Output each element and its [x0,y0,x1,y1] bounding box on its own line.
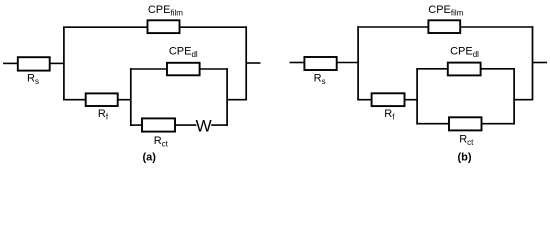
wire: top branch, CPEfilm to right junction (a) [180,26,248,28]
wire: inner top branch, CPEdl to inner-right junction (b) [481,68,515,70]
wire: inner top branch, junction to CPEdl (a) [130,68,167,70]
CPE CPEfilm (a) [148,20,180,33]
CPE CPEdl (b) [448,63,481,76]
wire: right parallel-junction vertical (a) [245,26,247,100]
resistor Rct (b) [449,117,482,130]
svg-text:(a): (a) [142,151,156,163]
wire: inner top branch, junction to CPEdl (b) [416,68,447,70]
wire Rs to left junction node (b) [337,62,358,64]
wire: inner block to right junction (b) [514,99,532,101]
resistor Rs (b) [304,57,336,70]
svg-text:CPEdl: CPEdl [450,45,479,59]
wire: Warburg W to inner-right junction (a) [211,124,228,126]
resistor Rf (b) [372,93,405,106]
wire: inner-left junction vertical (a) [130,68,132,126]
wire: left parallel-junction vertical (a) [63,26,65,100]
svg-text:Rf: Rf [98,108,109,122]
wire: inner-left junction vertical (b) [416,68,418,125]
wire: bottom branch, junction to Rf (a) [63,99,86,101]
wire: inner block to right junction (a) [227,99,246,101]
wire: top branch, CPEfilm to right junction (b) [460,26,533,28]
wire: inner-right junction vertical (a) [226,68,228,126]
wire: output terminal (a) [246,62,260,64]
wire: Rct to Warburg W (a) [175,124,196,126]
svg-text:Rf: Rf [384,108,395,122]
resistor Rct (a) [142,118,175,131]
resistor Rs (a) [18,57,50,70]
CPE CPEfilm (b) [428,20,460,33]
wire: inner bottom branch, junction to Rct (a) [130,124,142,126]
wire: inner bottom branch, junction to Rct (b) [416,123,449,125]
wire: Rct to inner-right junction (b) [482,123,515,125]
svg-text:Rs: Rs [314,72,326,86]
svg-text:(b): (b) [457,151,471,163]
wire: Rf to inner-left junction (a) [118,99,131,101]
wire: left parallel-junction vertical (b) [357,26,359,100]
svg-text:CPEfilm: CPEfilm [428,4,463,18]
wire: bottom branch, junction to Rf (b) [357,99,371,101]
svg-text:CPEdl: CPEdl [169,45,198,59]
wire: top branch, junction to CPEfilm (b) [357,26,428,28]
wire: input terminal (b) [290,62,305,64]
wire: output terminal (b) [533,62,548,64]
wire Rs to left junction node (a) [50,62,64,64]
wire: inner top branch, CPEdl to inner-right junction (a) [200,68,228,70]
svg-text:Rct: Rct [459,133,474,147]
svg-text:Rct: Rct [154,135,169,149]
wire: right parallel-junction vertical (b) [532,26,534,100]
wire: top branch, junction to CPEfilm (a) [63,26,147,28]
svg-text:CPEfilm: CPEfilm [148,4,183,18]
resistor Rf (a) [86,93,118,106]
wire: input terminal (a) [3,62,18,64]
wire: inner-right junction vertical (b) [513,68,515,125]
svg-text:Rs: Rs [27,72,39,86]
wire: Rf to inner-left junction (b) [405,99,418,101]
svg-text:W: W [196,116,212,135]
CPE CPEdl (a) [167,63,200,76]
